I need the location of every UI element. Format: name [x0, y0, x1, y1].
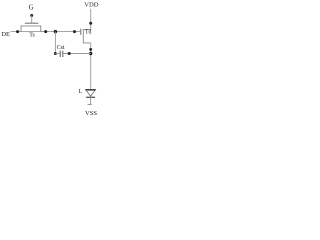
svg-text:VSS: VSS	[85, 110, 97, 117]
wire gate lead of Ts	[31, 16, 33, 23]
diode L cathode bar	[86, 96, 95, 98]
svg-text:G: G	[29, 5, 34, 12]
node G terminal dot	[30, 14, 33, 17]
node dot junction with Cst wire	[89, 52, 92, 55]
wire main horizontal from DE to Td gate	[11, 31, 81, 33]
wire VDD rail down to Td drain	[90, 9, 92, 30]
node dot Td source terminal	[89, 48, 92, 51]
svg-text:DE: DE	[1, 31, 10, 38]
node dot on VDD rail	[89, 22, 92, 25]
node dot at Td gate	[73, 30, 76, 33]
svg-text:VDD: VDD	[84, 2, 99, 9]
transistor Ts channel and legs	[21, 26, 41, 32]
diode L triangle	[86, 90, 96, 97]
transistor Ts gate bar	[25, 22, 39, 24]
wire Cst left lead	[55, 53, 60, 55]
diode L top edge thick	[86, 89, 96, 91]
node dot at Ts drain	[44, 30, 47, 33]
VSS terminal tick	[88, 103, 92, 105]
wire Cst tap down from main wire	[54, 32, 56, 54]
svg-text:Td: Td	[85, 29, 92, 35]
node dot junction with Cst tap	[54, 30, 57, 33]
node dot Cst left terminal	[54, 52, 57, 55]
transistor Td channel and legs	[83, 29, 90, 43]
wire Cst right lead to VDD rail	[63, 53, 91, 55]
transistor Td gate bar	[80, 29, 82, 35]
capacitor Cst left plate	[59, 51, 61, 57]
svg-text:Cst: Cst	[57, 45, 65, 51]
svg-text:L: L	[79, 89, 83, 95]
wire diode cathode down to VSS	[90, 97, 92, 104]
node dot at Ts source	[16, 30, 19, 33]
wire Td source rail down to OLED	[90, 43, 92, 90]
svg-text:Ts: Ts	[29, 33, 35, 39]
capacitor Cst right plate	[62, 51, 64, 57]
node dot Cst right terminal	[68, 52, 71, 55]
